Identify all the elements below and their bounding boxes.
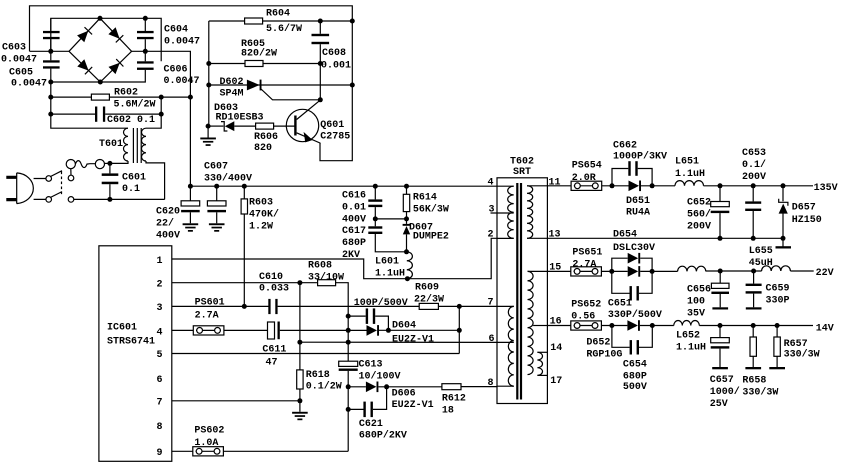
wire IC pin 4 row [172,329,194,331]
svg-text:200V: 200V [687,222,711,233]
svg-text:0.0047: 0.0047 [11,79,47,90]
svg-text:T602: T602 [510,156,534,167]
secondary winding pins 11-13 [527,185,547,187]
svg-text:7: 7 [488,298,494,309]
svg-text:5.6/7W: 5.6/7W [266,23,302,35]
svg-text:D654: D654 [613,230,637,241]
svg-text:C2785: C2785 [320,132,350,143]
svg-text:22V: 22V [816,268,834,279]
svg-text:PS602: PS602 [194,425,224,436]
inductor L601 1.1uH [375,252,412,280]
svg-text:22/: 22/ [156,218,174,230]
svg-text:L651: L651 [675,157,699,168]
svg-text:25V: 25V [710,399,728,410]
svg-text:1000P/3KV: 1000P/3KV [613,151,667,163]
svg-text:D606: D606 [392,389,416,400]
fuse F601 [66,160,110,176]
svg-text:14: 14 [550,343,562,354]
transistor Q601 C2785 [286,100,350,143]
svg-text:C607: C607 [204,161,228,172]
svg-text:0.1: 0.1 [122,184,140,195]
svg-text:C654: C654 [623,360,647,371]
svg-text:3: 3 [489,205,495,216]
svg-text:D651: D651 [626,196,650,207]
wire C616/R614 mid row [375,218,406,220]
wire main HV bus [190,185,497,187]
capacitor C621 680P/2KV [348,387,407,442]
svg-text:0.0047: 0.0047 [164,37,200,48]
svg-text:R606: R606 [254,132,278,143]
svg-text:SP4M: SP4M [220,88,244,99]
inductor L651 1.1uH [675,157,813,186]
inductor L655 45uH [749,246,814,271]
capacitor C616 0.01/400V [342,186,382,225]
capacitor C652 560/200V electrolytic [687,186,729,239]
svg-text:D602: D602 [220,77,244,88]
svg-text:330/3W: 330/3W [784,349,820,361]
junction dots mains input section [48,16,193,202]
wire bridge right vertex row to HV riser [132,51,191,186]
resistor R618 0.1/2W [297,370,342,401]
wire pin7-node vertical x=459.3 [458,306,460,353]
svg-text:135V: 135V [814,183,838,194]
svg-text:T601: T601 [99,139,123,150]
wire top rail from bridge left vertex to startup circuit [30,6,353,161]
svg-text:17: 17 [550,376,562,387]
small winding pins 14-17 [537,351,547,353]
capacitor C606 0.0047 [137,51,200,87]
svg-text:0.0047: 0.0047 [1,55,37,66]
svg-text:820: 820 [254,143,272,154]
svg-text:1000/: 1000/ [710,386,740,398]
capacitor C662 1000P/3KV [612,141,667,186]
svg-text:0.01: 0.01 [342,202,366,213]
ground at R618 [292,401,308,420]
svg-text:200V: 200V [742,172,766,183]
switch S601 pole 1 [46,171,74,182]
svg-text:680P/2KV: 680P/2KV [359,430,407,442]
capacitor C603 0.0047 [1,18,60,65]
svg-text:35V: 35V [687,309,705,320]
svg-text:R609: R609 [415,283,439,294]
resistor R614 56K/3W [403,186,449,219]
capacitor C602 0.1 [51,107,161,127]
diode D602 SP4M [209,77,352,99]
svg-text:45uH: 45uH [749,258,773,269]
capacitor C601 0.1 [102,163,146,199]
capacitor C608 0.001 [312,21,352,71]
svg-text:DSLC30V: DSLC30V [613,243,655,254]
svg-text:8: 8 [157,422,163,433]
capacitor C659 330P [746,271,790,310]
junction dots HV bus and snubber [188,184,410,282]
svg-text:14V: 14V [816,324,834,335]
svg-text:R608: R608 [308,261,332,272]
capacitor C620 22/400V electrolytic [156,186,200,241]
junction dots 14V rail [609,323,779,328]
wire left mains column to T601 [51,82,128,128]
drive winding pins 7-6-8 [497,305,514,307]
ground at D603 [200,126,216,146]
svg-text:330/3W: 330/3W [742,387,778,399]
double diode D654 DSLC30V [612,230,678,277]
svg-text:470K/: 470K/ [249,209,279,221]
svg-text:400V: 400V [156,231,180,242]
svg-text:PS651: PS651 [572,248,602,259]
AC plug P601 [6,173,46,204]
resistor R606 820 [254,123,295,154]
svg-text:1.1uH: 1.1uH [675,169,705,180]
svg-text:500V: 500V [623,382,647,393]
capacitor 100P/500V [348,308,388,330]
damper diode D607 DUMPE2 [403,219,449,252]
svg-text:11: 11 [549,177,561,188]
svg-text:L655: L655 [749,246,773,257]
svg-text:1.2W: 1.2W [249,222,273,233]
svg-text:8: 8 [488,378,494,389]
diode D652 RGP10G [586,320,673,360]
svg-text:Q601: Q601 [320,120,344,131]
svg-text:C606: C606 [164,65,188,76]
capacitor C651 330P/500V [608,271,662,321]
fuse resistor PS651 2.7A [571,248,628,277]
wire startup left rail x=208.8 [208,21,210,126]
svg-text:0.0047: 0.0047 [164,76,200,87]
zener diode D657 HZ150 [779,186,822,239]
junction dots IC section [242,280,462,412]
capacitor C610 0.033 [259,272,419,314]
svg-text:C651: C651 [608,299,632,310]
svg-text:13: 13 [549,230,561,241]
svg-text:330P: 330P [766,296,790,307]
svg-text:6: 6 [157,375,163,386]
svg-text:R614: R614 [413,193,437,204]
svg-text:R612: R612 [442,394,466,405]
wire C608 column down to collector node [319,64,321,100]
svg-text:0.1/: 0.1/ [742,159,766,171]
svg-text:2: 2 [157,279,163,290]
IC601 STRS6741 [99,246,172,461]
fuse resistor PS601 2.7A [193,298,267,335]
svg-text:PS654: PS654 [572,160,602,171]
wire IC pin 1 row to L601 bottom row [172,238,497,278]
inductor 22V rail choke [678,266,706,271]
wire IC pin 9 row [172,450,193,452]
capacitor C653 0.1/200V [742,148,766,238]
svg-text:DUMPE2: DUMPE2 [413,232,449,243]
wire right mains column C602 end down to T601 right coil [146,97,161,128]
wire transformer pin 6 row [300,341,497,343]
svg-text:R618: R618 [306,370,330,381]
capacitor C617 680P/2KV [342,219,407,261]
svg-text:2: 2 [488,230,494,241]
svg-text:C602 0.1: C602 0.1 [107,115,155,126]
line filter T601 [99,128,165,199]
svg-text:C652: C652 [687,198,711,209]
wire pin2 sense vertical x=300 [299,283,301,370]
wire bridge left vertex row [30,50,70,52]
svg-text:560/: 560/ [687,209,711,221]
svg-text:RGP10G: RGP10G [586,350,622,361]
capacitor C605 0.0047 [9,51,60,89]
capacitor C613 10/100V electrolytic [339,360,401,452]
svg-text:SRT: SRT [513,167,531,178]
svg-text:C616: C616 [342,190,366,201]
wire 135V rail pin 11 row [547,185,571,187]
diode D604 EU2Z-V1 [367,321,460,346]
svg-text:L601: L601 [375,257,399,268]
svg-text:0.1/2W: 0.1/2W [306,381,342,393]
svg-text:STRS6741: STRS6741 [107,337,155,348]
fuse resistor PS654 2.0R [571,160,628,190]
capacitor C654 680P/500V [612,326,652,394]
secondary winding pins 15-16-17 [528,270,548,272]
svg-text:1.1uH: 1.1uH [676,343,706,354]
svg-text:D652: D652 [586,338,610,349]
svg-text:R658: R658 [742,376,766,387]
resistor R602 5.6M/2W [51,88,191,111]
wire D602 cathode diagonal to collector node [261,89,321,100]
capacitor C657 1000/25V electrolytic [710,326,740,411]
cold ground bar at D657 [776,238,792,248]
svg-text:2.7A: 2.7A [195,311,219,322]
junction dots startup section [206,19,355,129]
svg-text:22/3W: 22/3W [414,294,444,306]
zener diode D603 RD10ESB3 [208,103,263,131]
svg-text:7: 7 [157,398,163,409]
svg-text:400V: 400V [342,214,366,225]
svg-text:2.7A: 2.7A [572,259,596,270]
svg-text:4: 4 [488,177,494,188]
svg-text:6: 6 [489,334,495,345]
svg-text:C662: C662 [613,141,637,152]
svg-text:1.1uH: 1.1uH [375,269,405,280]
svg-text:D604: D604 [392,321,416,332]
svg-text:3: 3 [157,303,163,314]
svg-text:10/100V: 10/100V [359,371,401,383]
wire 135V return row pin 13 [547,237,783,239]
svg-text:330P/500V: 330P/500V [608,309,662,321]
svg-text:C653: C653 [742,148,766,159]
svg-text:4: 4 [157,327,163,338]
svg-text:C657: C657 [710,375,734,386]
svg-text:680P: 680P [342,238,366,249]
svg-text:RU4A: RU4A [626,208,650,219]
svg-text:C604: C604 [164,25,188,36]
svg-text:C659: C659 [766,284,790,295]
svg-text:820/2W: 820/2W [241,48,277,60]
resistor R603 470K/1.2W [241,186,279,306]
svg-text:56K/3W: 56K/3W [413,203,449,215]
junction dots 22V rail [609,269,756,274]
wire bridge AC bottom row (y=82) [51,70,146,82]
svg-text:R602: R602 [114,88,138,99]
svg-text:100: 100 [687,297,705,308]
resistor R612 18 [442,384,497,417]
resistor R609 22/3W [414,283,497,310]
svg-text:C610: C610 [259,272,283,283]
fuse resistor PS602 1.0A [193,425,348,456]
wire bridge AC top row (y=18.3) [51,18,161,61]
svg-text:C620: C620 [156,207,180,218]
svg-text:HZ150: HZ150 [792,215,822,226]
svg-text:PS601: PS601 [195,298,225,309]
svg-text:0.56: 0.56 [571,311,595,322]
svg-text:L652: L652 [676,331,700,342]
svg-text:9: 9 [157,448,163,459]
svg-text:C617: C617 [342,226,366,237]
wire IC pin 3 row left of C610 [172,305,270,307]
svg-text:18: 18 [442,406,454,417]
svg-text:0.001: 0.001 [321,60,351,71]
capacitor C607 330/400V electrolytic [204,161,252,231]
bridge rectifier D601 diamond [69,18,132,82]
wire mains bottom row [74,198,165,200]
capacitor C611 47 [262,322,366,369]
svg-text:5.6M/2W: 5.6M/2W [114,99,156,111]
svg-text:D657: D657 [792,202,816,213]
fuse resistor PS652 0.56 [571,299,628,330]
svg-text:47: 47 [266,357,278,368]
primary winding pins 4-3-2 [497,185,514,187]
svg-text:C603: C603 [2,43,26,54]
svg-text:330/400V: 330/400V [204,173,252,185]
svg-text:EU2Z-V1: EU2Z-V1 [392,334,434,345]
wire IC pin 5 row [172,353,460,355]
wire 14V rail pin 16 row [547,325,570,327]
capacitor C656 100/35V electrolytic [687,271,729,320]
wire IC pin 2 row [172,282,300,284]
svg-text:RD10ESB3: RD10ESB3 [216,113,264,124]
resistor R657 330/3W [769,326,819,370]
svg-text:100P/500V: 100P/500V [354,297,408,309]
resistor R608 33/10W [300,261,348,362]
svg-text:C613: C613 [359,360,383,371]
svg-text:PS652: PS652 [571,299,601,310]
svg-text:680P: 680P [623,371,647,382]
resistor R604 5.6/7W [209,8,352,35]
diode D651 RU4A [626,181,675,219]
svg-text:C601: C601 [122,173,146,184]
svg-text:R604: R604 [266,8,290,19]
capacitor C604 0.0047 [137,18,200,51]
svg-text:C605: C605 [9,68,33,79]
svg-text:2.0R: 2.0R [572,173,596,184]
inductor L652 1.1uH [674,321,813,354]
wire IC pin 7 row [172,400,300,402]
svg-text:1: 1 [157,256,163,267]
junction dots 135V rail [610,183,786,241]
svg-text:IC601: IC601 [107,323,137,334]
wire 22V rail to L655 [706,270,762,272]
diode D606 EU2Z-V1 [348,382,442,412]
svg-text:0.033: 0.033 [259,284,289,295]
svg-text:C621: C621 [359,419,383,430]
svg-text:C656: C656 [687,285,711,296]
transformer T602 SRT [488,156,563,403]
svg-text:1.0A: 1.0A [194,438,218,449]
resistor R605 820/2W [209,39,320,67]
wire 22V rail pin 15 row [547,270,570,272]
svg-text:33/10W: 33/10W [308,271,344,283]
svg-text:EU2Z-V1: EU2Z-V1 [392,400,434,411]
svg-text:5: 5 [157,350,163,361]
resistor R658 330/3W [742,326,778,399]
svg-text:C608: C608 [322,48,346,59]
svg-text:R603: R603 [249,198,273,209]
svg-text:R657: R657 [784,339,808,350]
switch S601 pole 2 [46,172,74,203]
